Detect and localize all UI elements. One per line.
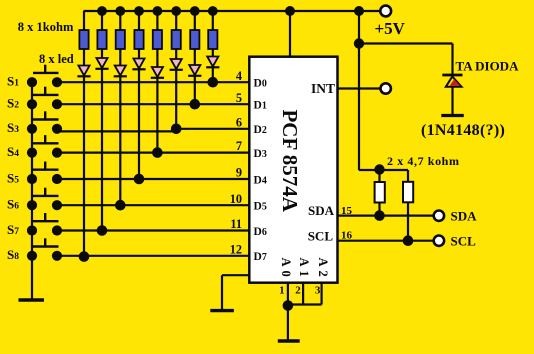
svg-text:A1: A1 xyxy=(297,258,311,281)
junction bus/column 8 xyxy=(208,6,218,16)
ground A0-A2 xyxy=(278,339,300,342)
wire column 1: bus to resistor R1 xyxy=(83,11,85,31)
junction R9/SDA xyxy=(374,210,385,221)
resistor R4 1kohm xyxy=(134,30,143,49)
resistor R8 1kohm xyxy=(208,30,217,49)
switch S6 xyxy=(33,195,59,197)
diode D9 TA DIODA (triangle) xyxy=(446,77,462,87)
wire row D7: switch S8 to IC pin xyxy=(57,255,251,257)
led LED3 xyxy=(115,66,126,76)
wire column 6: bus to resistor R6 xyxy=(175,11,177,31)
wire resistor R1 to led LED1 xyxy=(83,49,85,66)
svg-text:12: 12 xyxy=(230,242,242,256)
led LED6 xyxy=(171,59,182,69)
svg-text:1: 1 xyxy=(279,285,285,297)
wire column 5: bus to resistor R5 xyxy=(156,11,158,31)
wire column 2: bus to resistor R2 xyxy=(101,11,103,31)
ground switch bus xyxy=(19,298,45,301)
wire row D6: switch S7 to IC pin xyxy=(57,229,251,231)
svg-text:D1: D1 xyxy=(254,100,267,112)
svg-text:11: 11 xyxy=(230,217,242,231)
svg-text:A2: A2 xyxy=(316,258,330,281)
wire led LED1 to node D7 xyxy=(83,77,85,256)
switch S8 xyxy=(33,245,59,247)
svg-text:D4: D4 xyxy=(254,174,267,186)
switch S4 xyxy=(33,142,59,144)
junction node D5/column 3 xyxy=(115,200,126,211)
wire pullup feed xyxy=(359,169,408,171)
diode D9 TA DIODA (cathode bar) xyxy=(442,74,462,77)
wire row D5: switch S6 to IC pin xyxy=(57,204,251,206)
wire tee to diode xyxy=(359,42,453,44)
wire led LED2 to node D6 xyxy=(101,69,103,231)
svg-text:8 x led: 8 x led xyxy=(39,52,74,66)
svg-text:D2: D2 xyxy=(254,124,267,136)
resistor R7 1kohm xyxy=(190,30,199,49)
open end bar of diode branch xyxy=(441,114,464,117)
terminal SCL xyxy=(434,236,444,246)
junction pin1/join wire xyxy=(283,300,294,311)
pin 3 stub xyxy=(321,283,323,305)
wire IC VCC to +5V bus xyxy=(289,11,291,57)
switch S3 xyxy=(33,118,59,120)
svg-text:SCL: SCL xyxy=(451,233,477,248)
led LED2 xyxy=(96,58,107,68)
wire switch common bus xyxy=(31,82,33,300)
svg-text:A0: A0 xyxy=(279,258,293,281)
svg-text:5: 5 xyxy=(236,91,242,105)
svg-text:2: 2 xyxy=(295,285,301,297)
wire +5V branch down xyxy=(358,11,360,170)
pin 1 stub and wire to ground xyxy=(287,283,289,341)
resistor R2 1kohm xyxy=(97,30,106,49)
wire resistor R8 to led LED8 xyxy=(212,49,214,57)
svg-text:INT: INT xyxy=(311,81,335,96)
svg-text:D5: D5 xyxy=(254,201,267,213)
resistor R6 1kohm xyxy=(172,30,181,49)
svg-text:SDA: SDA xyxy=(308,203,335,218)
svg-text:TA DIODA: TA DIODA xyxy=(456,58,520,73)
svg-text:4: 4 xyxy=(236,69,242,83)
svg-text:D6: D6 xyxy=(254,226,267,238)
svg-text:D3: D3 xyxy=(254,148,267,160)
junction node D1/column 7 xyxy=(190,99,201,110)
wire column 3: bus to resistor R3 xyxy=(119,11,121,31)
op IC U1 PCF 8574A body xyxy=(249,57,337,283)
junction pullup R9 top xyxy=(374,164,384,174)
resistor R1 1kohm xyxy=(79,30,88,49)
wire led LED8 to node D0 xyxy=(212,68,214,83)
switch S7 xyxy=(33,220,59,222)
switch S1 xyxy=(33,72,59,74)
wire row D0: switch S1 to IC pin xyxy=(57,81,251,83)
junction node D6/column 2 xyxy=(97,225,108,236)
junction node D3/column 5 xyxy=(152,147,163,158)
resistor R9 4,7kohm xyxy=(378,170,380,182)
svg-text:PCF 8574A: PCF 8574A xyxy=(278,109,302,212)
wire column 8: bus to resistor R8 xyxy=(212,11,214,31)
pin 2 stub xyxy=(302,283,304,305)
svg-text:7: 7 xyxy=(236,139,242,153)
led LED7 xyxy=(189,65,200,75)
ground IC VSS xyxy=(210,309,234,312)
svg-text:SCL: SCL xyxy=(308,228,334,243)
junction bus/column 7 xyxy=(190,6,200,16)
junction bus/branch xyxy=(354,6,364,16)
junction node D2/column 6 xyxy=(171,124,182,135)
svg-text:8 x 1kohm: 8 x 1kohm xyxy=(18,20,74,34)
wire resistor R7 to led LED7 xyxy=(194,49,196,65)
wire resistor R5 to led LED5 xyxy=(156,49,158,67)
resistor R5 1kohm xyxy=(153,30,162,49)
wire resistor R4 to led LED4 xyxy=(138,49,140,59)
wire diode anode down xyxy=(451,87,453,116)
junction bus/column 4 xyxy=(134,6,144,16)
switch S2 xyxy=(33,94,59,96)
wire row D1: switch S2 to IC pin xyxy=(57,103,251,105)
wire column 7: bus to resistor R7 xyxy=(194,11,196,31)
resistor R10 4,7kohm xyxy=(407,170,409,182)
svg-text:2 x 4,7 kohm: 2 x 4,7 kohm xyxy=(387,154,460,168)
junction bus/VCC xyxy=(285,6,295,16)
wire resistor R6 to led LED6 xyxy=(175,49,177,59)
svg-text:(1N4148(?)): (1N4148(?)) xyxy=(421,122,505,139)
led LED4 xyxy=(133,59,144,69)
wire row D4: switch S5 to IC pin xyxy=(57,178,251,180)
svg-text:SDA: SDA xyxy=(451,208,478,223)
wire led LED4 to node D4 xyxy=(138,70,140,180)
svg-text:10: 10 xyxy=(230,192,242,206)
junction node D7/column 1 xyxy=(79,251,90,262)
wire led LED6 to node D2 xyxy=(175,70,177,129)
wire joining pins 1-2-3 xyxy=(288,303,322,305)
svg-text:D7: D7 xyxy=(254,251,267,263)
led LED8 xyxy=(207,57,218,67)
junction R10/SCL xyxy=(403,235,414,246)
led LED1 xyxy=(78,66,89,76)
resistor R3 1kohm xyxy=(116,30,125,49)
svg-text:6: 6 xyxy=(236,115,242,129)
wire IC VSS to ground xyxy=(222,274,249,276)
wire INT xyxy=(338,87,381,89)
svg-text:D0: D0 xyxy=(254,78,267,90)
svg-text:3: 3 xyxy=(315,285,321,297)
svg-text:9: 9 xyxy=(236,166,242,180)
junction bus/column 6 xyxy=(171,6,181,16)
junction bus/column 2 xyxy=(97,6,107,16)
wire column 4: bus to resistor R4 xyxy=(138,11,140,31)
wire led LED5 to node D3 xyxy=(156,78,158,153)
wire led LED3 to node D5 xyxy=(119,77,121,206)
junction node D0/column 8 xyxy=(208,77,219,88)
junction bus/column 5 xyxy=(153,6,163,16)
switch S5 xyxy=(33,168,59,170)
terminal SDA xyxy=(434,211,444,221)
led LED5 xyxy=(152,67,163,77)
wire resistor R2 to led LED2 xyxy=(101,49,103,58)
junction node D4/column 4 xyxy=(134,174,145,185)
wire resistor R3 to led LED3 xyxy=(119,49,121,66)
wire SDA xyxy=(338,215,435,217)
junction branch/diode tee xyxy=(354,38,364,48)
terminal INT xyxy=(381,83,391,93)
wire row D3: switch S4 to IC pin xyxy=(57,152,251,154)
wire led LED7 to node D1 xyxy=(194,76,196,104)
terminal +5V xyxy=(380,6,391,17)
wire row D2: switch S3 to IC pin xyxy=(57,130,176,132)
svg-text:+5V: +5V xyxy=(375,19,406,38)
junction bus/column 3 xyxy=(115,6,125,16)
wire SCL xyxy=(338,240,435,242)
wire +5V bus xyxy=(84,10,381,12)
